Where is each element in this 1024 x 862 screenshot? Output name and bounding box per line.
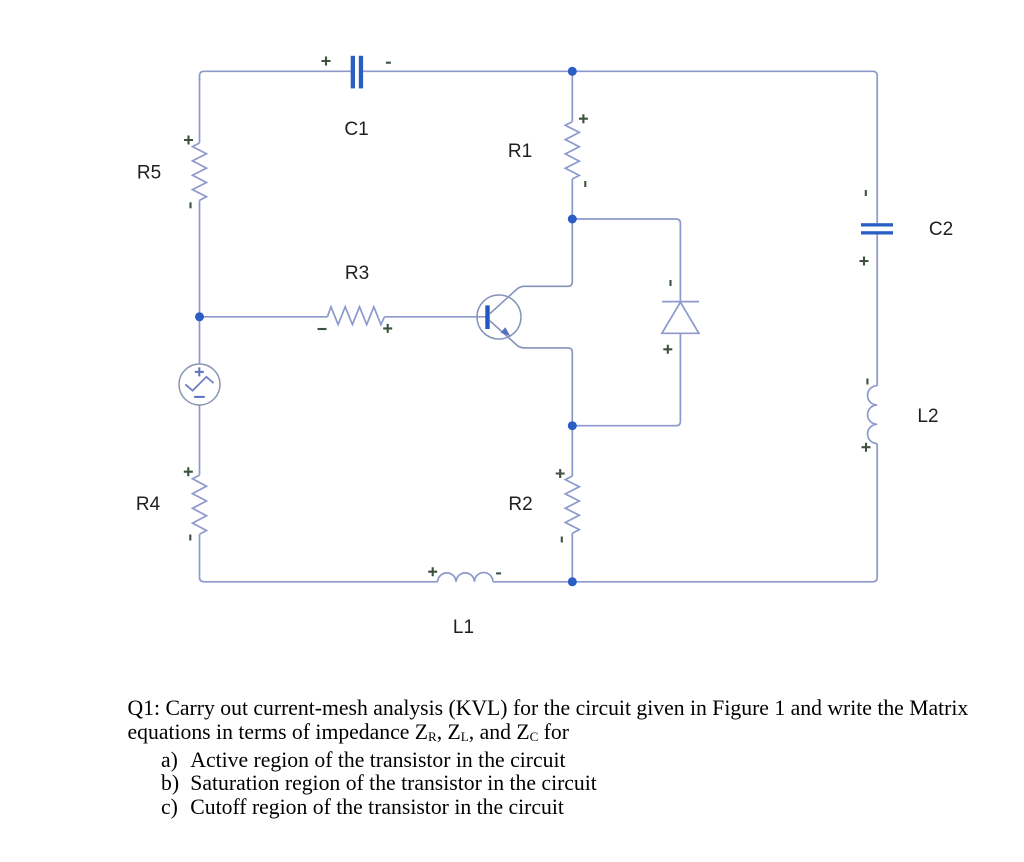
wire L2 to bottom-right corner to bottom node — [572, 444, 877, 582]
node emitter — [568, 421, 577, 430]
svg-text:L2: L2 — [917, 406, 938, 427]
resistor R2 — [565, 476, 579, 533]
inductor L1 — [438, 573, 493, 582]
svg-text:L1: L1 — [453, 617, 474, 638]
capacitor C2 — [861, 223, 893, 234]
svg-text:R3: R3 — [345, 263, 369, 284]
wire top node to R1 — [571, 71, 573, 121]
svg-text:C2: C2 — [929, 219, 953, 240]
resistor R4 — [193, 475, 207, 534]
resistor R5 — [193, 143, 207, 200]
wire top node to top-right corner down to C2 — [572, 71, 877, 223]
wire R3 to transistor base — [385, 316, 486, 318]
node top — [568, 67, 577, 76]
svg-text:R2: R2 — [508, 494, 532, 515]
wire collector node to diode top — [572, 219, 680, 302]
resistor R3 — [327, 307, 384, 325]
wire C2 to L2 — [876, 235, 878, 386]
question text — [128, 697, 998, 819]
source V1 — [179, 364, 220, 405]
wire R2 to bottom node — [571, 533, 573, 582]
wire R5 to top-left corner — [199, 78, 201, 143]
node left — [195, 312, 204, 321]
diode D1 — [662, 302, 699, 334]
polarity marks — [184, 57, 871, 577]
wire left node to R5 — [199, 200, 201, 316]
node bottom — [568, 577, 577, 586]
wire L1 to bottom-left corner up to R4 — [200, 534, 438, 582]
wire source V1 to left node — [199, 317, 201, 364]
inductor L2 — [868, 386, 878, 444]
wire base: left node to R3 — [200, 316, 328, 318]
wire R4 to source V1 — [199, 405, 201, 475]
wire bottom node to L1 — [493, 581, 572, 583]
wire diode bottom to emitter node — [572, 333, 680, 425]
svg-text:R1: R1 — [508, 141, 532, 162]
svg-text:C1: C1 — [344, 119, 368, 140]
svg-text:R4: R4 — [136, 494, 161, 515]
wire emitter node to R2 — [571, 426, 573, 476]
wire R1 to collector node — [571, 179, 573, 219]
svg-text:R5: R5 — [137, 163, 161, 184]
capacitor C1 — [351, 56, 363, 89]
node collector — [568, 215, 577, 224]
wire top-left from left rail corner to C1 — [200, 71, 351, 80]
transistor Q1 — [477, 219, 572, 426]
resistor R1 — [565, 122, 579, 179]
wire C1 to top node — [363, 70, 572, 72]
